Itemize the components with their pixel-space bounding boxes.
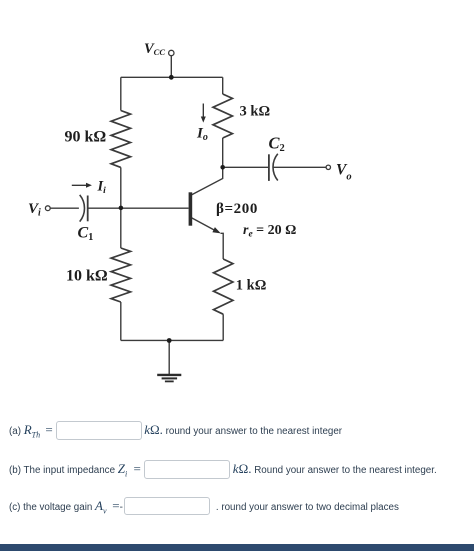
wire: Vcc terminal to top rail	[170, 56, 172, 78]
svg-text:VCC: VCC	[144, 41, 165, 57]
question (b)	[0, 460, 437, 479]
svg-text:C2: C2	[269, 134, 285, 155]
junction node: collector node	[220, 165, 225, 170]
svg-text:re = 20 Ω: re = 20 Ω	[243, 223, 296, 240]
junction node: base node	[119, 206, 124, 211]
wire: left branch middle	[120, 167, 122, 248]
resistor 90 kOhm zigzag	[111, 111, 130, 168]
wire: emitter to 1k	[221, 233, 224, 259]
terminal circle Vo	[326, 165, 330, 169]
Ii current arrow	[72, 183, 92, 188]
svg-text:Vi: Vi	[28, 201, 41, 219]
svg-text:Io: Io	[196, 126, 208, 144]
transistor Q1 emitter	[191, 217, 217, 231]
wire: 1k to bottom rail	[222, 314, 224, 340]
wire: base wire from C1 to base	[88, 207, 189, 209]
wire: C2 to Vo terminal	[273, 166, 326, 168]
wire: collector node to C2	[223, 166, 269, 168]
question (c)	[0, 497, 399, 515]
terminal circle Vi	[45, 206, 50, 211]
wire: 3k to collector node	[222, 138, 224, 167]
svg-text:3 kΩ: 3 kΩ	[240, 104, 271, 120]
svg-text:β=200: β=200	[216, 201, 258, 217]
wire: left branch lower	[120, 302, 122, 340]
capacitor C2 curved plate	[273, 154, 278, 181]
wire: right branch upper	[222, 77, 224, 94]
capacitor C2 straight plate	[268, 154, 270, 181]
resistor 3 kOhm zigzag	[213, 94, 232, 138]
svg-text:Vo: Vo	[336, 162, 352, 183]
ground symbol	[157, 375, 181, 382]
transistor Q1 collector	[191, 167, 223, 195]
svg-text:90 kΩ: 90 kΩ	[65, 129, 107, 146]
wire: left branch upper	[120, 77, 122, 110]
junction node: top rail	[169, 75, 174, 80]
bottom navy bar	[0, 544, 474, 551]
capacitor C1 curved plate	[80, 195, 85, 222]
transistor Q1 emitter arrowhead	[212, 227, 220, 233]
question (a)	[0, 421, 342, 440]
svg-text:10 kΩ: 10 kΩ	[66, 268, 108, 285]
Io current arrow	[201, 104, 206, 123]
wire: top rail	[121, 76, 223, 78]
capacitor C1 straight plate	[87, 196, 89, 222]
circuit schematic svg	[0, 0, 474, 410]
svg-text:C1: C1	[78, 225, 94, 244]
terminal circle Vcc	[169, 50, 174, 55]
junction node: ground node	[167, 338, 172, 343]
resistor 10 kOhm zigzag	[111, 248, 130, 302]
svg-text:Ii: Ii	[97, 179, 107, 197]
wire: bottom rail	[121, 339, 223, 341]
resistor 1 kOhm zigzag	[214, 259, 233, 314]
svg-text:1 kΩ: 1 kΩ	[236, 278, 267, 294]
wire: ground stem	[168, 341, 170, 375]
transistor Q1 base bar	[189, 192, 193, 225]
wire: Vi terminal to C1	[50, 207, 79, 209]
